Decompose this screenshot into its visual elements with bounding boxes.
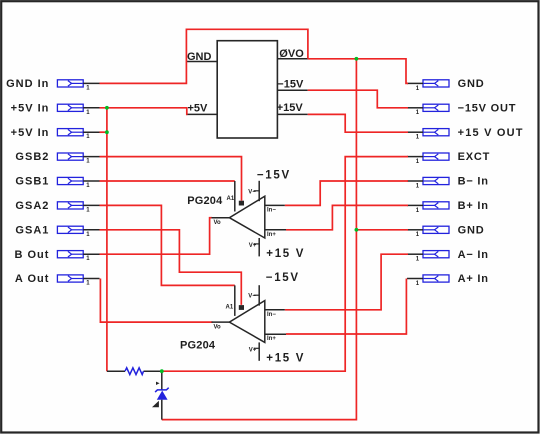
- svg-text:−15V: −15V: [266, 272, 300, 284]
- svg-text:B− In: B− In: [458, 176, 489, 188]
- svg-text:GND: GND: [187, 51, 212, 63]
- svg-text:Vo: Vo: [214, 220, 222, 226]
- power module U1: [217, 41, 277, 138]
- pin Vo output of U2: [212, 218, 230, 227]
- wire GSA1 to op-amp U3 gain pin: [100, 230, 242, 305]
- svg-text:PG204: PG204: [180, 340, 216, 352]
- svg-text:A1: A1: [226, 304, 234, 310]
- connector J11 -15V OUT: [407, 102, 516, 116]
- pin V+ of U3 with +15 V power symbol: [249, 342, 305, 364]
- svg-text:V−: V−: [248, 294, 256, 300]
- op-amp U3 PG204: [180, 301, 265, 352]
- svg-text:ØVO: ØVO: [279, 48, 304, 60]
- pin In+ of U3: [265, 334, 286, 342]
- pin GND of U1: [186, 51, 217, 63]
- svg-text:GND: GND: [458, 78, 485, 90]
- wire U3 In+ to A+ In: [286, 279, 406, 335]
- wire B Out to op-amp U2 output: [100, 218, 213, 255]
- svg-text:+5V In: +5V In: [11, 102, 50, 114]
- wire +5V In row3 stub to vertical: [100, 131, 107, 133]
- junction +5V row2: [105, 106, 109, 110]
- svg-text:+5V In: +5V In: [11, 127, 50, 139]
- pin In- of U3: [265, 310, 285, 318]
- svg-text:+15 V: +15 V: [266, 353, 305, 365]
- wire GND vertical net: [162, 59, 357, 420]
- connector J5 GSB1: [15, 176, 99, 189]
- svg-text:GND: GND: [458, 224, 485, 236]
- pin V- of U2 with -15V power symbol: [248, 169, 291, 201]
- connector J15 B+ In: [407, 200, 489, 214]
- pin Vo output of U3: [212, 322, 230, 331]
- svg-text:Vo: Vo: [214, 325, 222, 331]
- pin -15V of U1: [277, 79, 307, 91]
- junction +5V row3: [105, 130, 109, 134]
- junction 0VO GND: [355, 57, 359, 61]
- svg-text:−15V: −15V: [277, 79, 304, 91]
- connector J4 GSB2: [15, 151, 99, 164]
- connector J9 A Out: [15, 273, 100, 286]
- pin +5V of U1: [187, 103, 217, 115]
- junction GND row7: [355, 228, 359, 232]
- connector J8 B Out: [14, 249, 99, 262]
- pin V+ of U2 with +15 V power symbol: [249, 238, 305, 260]
- wire GSB2 to op-amp U2 gain pin: [100, 157, 242, 201]
- svg-text:In+: In+: [267, 336, 276, 342]
- connector J1 GND In: [6, 78, 99, 91]
- svg-text:In+: In+: [267, 232, 276, 238]
- svg-text:V+: V+: [249, 243, 257, 249]
- pin In+ of U2: [265, 230, 286, 238]
- connector J3 +5V In: [11, 127, 100, 140]
- wire +5V In row2 to U1 +5V pin: [100, 108, 188, 115]
- svg-text:+5V: +5V: [188, 103, 209, 115]
- connector J14 B- In: [407, 176, 489, 190]
- svg-text:B Out: B Out: [14, 249, 49, 261]
- svg-text:A+ In: A+ In: [458, 273, 489, 285]
- wire GND In to U1 GND and 0VO top rail: [100, 29, 308, 83]
- connector J13 EXCT: [407, 151, 490, 165]
- svg-text:In−: In−: [267, 207, 276, 213]
- wire -15V to -15V OUT: [308, 90, 408, 108]
- wire GSA2 to op-amp U3 A1 pin: [100, 205, 235, 285]
- wire GND to right GND connector row7: [356, 229, 408, 231]
- svg-text:+15 V OUT: +15 V OUT: [458, 127, 524, 139]
- svg-text:PG204: PG204: [187, 195, 223, 207]
- op-amp U2 PG204: [187, 195, 265, 238]
- wire A Out to op-amp U3 output: [100, 279, 212, 323]
- wire EXCT net: [162, 157, 408, 372]
- resistor R1: [107, 368, 162, 375]
- svg-text:A− In: A− In: [458, 249, 489, 261]
- gain pin blob of U2: [239, 201, 244, 206]
- wire GSB1 to op-amp U2 A1 pin: [100, 180, 235, 182]
- pin +15V of U1: [277, 102, 308, 114]
- connector J6 GSA2: [15, 200, 99, 213]
- svg-text:V+: V+: [249, 348, 257, 354]
- svg-text:GSA2: GSA2: [15, 200, 49, 212]
- svg-text:A1: A1: [227, 196, 235, 202]
- gain pin blob of U3: [239, 305, 244, 310]
- svg-text:−15V OUT: −15V OUT: [458, 102, 517, 114]
- connector J2 +5V In: [11, 102, 100, 115]
- svg-text:In−: In−: [267, 312, 276, 318]
- svg-text:GND In: GND In: [6, 78, 49, 90]
- wire U2 In+ to B+ In: [286, 205, 408, 229]
- connector J10 GND: [407, 78, 484, 92]
- pin A1 gain lead of U3: [234, 285, 236, 316]
- wire U2 In- to B- In: [285, 181, 408, 205]
- connector J16 GND: [407, 224, 484, 238]
- pin In- of U2: [265, 205, 285, 213]
- pin A1 gain lead of U2: [234, 181, 236, 212]
- pin 0VO of U1: [277, 48, 308, 60]
- connector J17 A- In: [407, 249, 489, 263]
- wire U3 In- to A- In: [285, 254, 408, 310]
- pin V- of U3 with -15V power symbol: [248, 272, 300, 306]
- svg-text:GSA1: GSA1: [15, 224, 49, 236]
- connector J7 GSA1: [15, 224, 99, 237]
- zener diode D1: [152, 371, 169, 419]
- svg-text:−15V: −15V: [257, 169, 291, 181]
- wire 0VO to right GND connector: [308, 59, 408, 84]
- svg-text:A Out: A Out: [15, 273, 50, 285]
- junction EXCT zener: [160, 369, 164, 373]
- svg-text:+15V: +15V: [277, 102, 304, 114]
- wire +15V to +15 V OUT: [308, 114, 408, 132]
- connector J12 +15 V OUT: [407, 127, 524, 141]
- svg-text:B+ In: B+ In: [458, 200, 489, 212]
- svg-text:GSB1: GSB1: [15, 176, 49, 188]
- connector J18 A+ In: [407, 273, 489, 287]
- wire +5V vertical feed to resistor: [106, 108, 108, 371]
- svg-text:V−: V−: [248, 189, 256, 195]
- svg-text:+15 V: +15 V: [266, 248, 305, 260]
- svg-text:EXCT: EXCT: [458, 151, 491, 163]
- svg-text:GSB2: GSB2: [15, 151, 49, 163]
